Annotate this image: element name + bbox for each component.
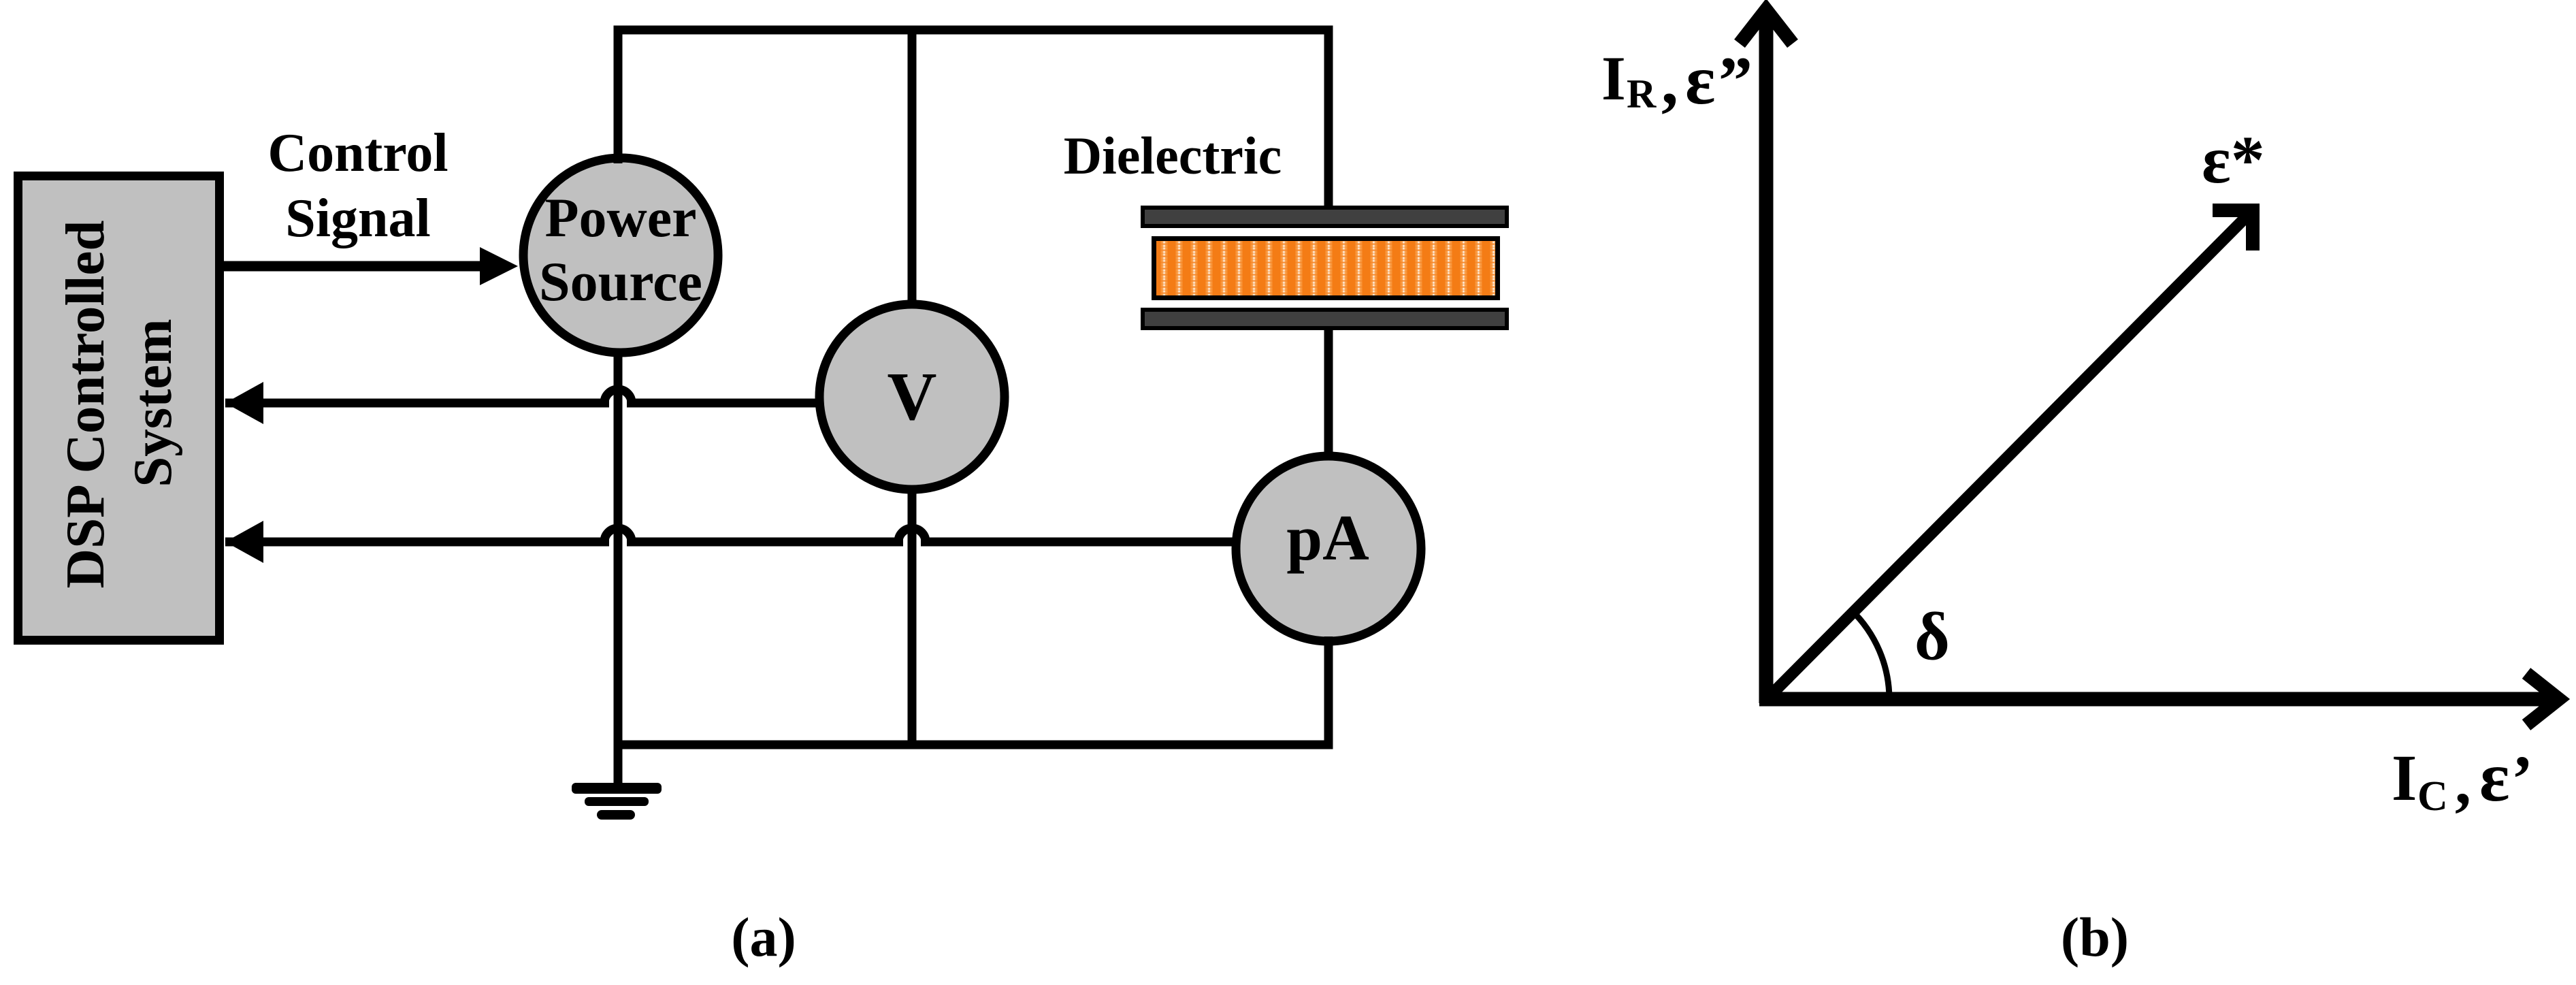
DSP Controlled System box <box>18 176 220 641</box>
ground <box>572 783 662 794</box>
svg-text:(b): (b) <box>2061 906 2129 968</box>
svg-text:δ: δ <box>1914 598 1950 674</box>
capacitor top plate <box>1143 208 1507 226</box>
svg-text:Signal: Signal <box>285 189 430 248</box>
dielectric slab <box>1154 239 1498 298</box>
svg-text:Dielectric: Dielectric <box>1064 126 1282 185</box>
wire: bottom rail <box>614 741 1333 749</box>
svg-text:’: ’ <box>2511 742 2533 815</box>
svg-text:ε*: ε* <box>2202 122 2265 197</box>
svg-text:V: V <box>887 358 937 434</box>
wire: top rail <box>614 26 1333 35</box>
delta angle arc <box>1851 610 1889 699</box>
hop over power vertical on wire 2 <box>604 528 632 542</box>
wire: V top vertical <box>908 30 917 306</box>
svg-text:DSP Controlled: DSP Controlled <box>54 221 116 589</box>
control signal arrowhead <box>480 247 518 285</box>
wire: power vertical below circle down to ground <box>614 349 623 784</box>
wire: capacitor bottom vertical <box>1324 329 1333 459</box>
svg-text:ε: ε <box>1685 41 1715 119</box>
svg-text:ε: ε <box>2479 738 2509 816</box>
svg-text:,: , <box>2455 745 2471 818</box>
svg-text:System: System <box>122 319 183 487</box>
vertical axis I_R <box>1759 15 1774 703</box>
wire: V vertical below circle <box>908 485 917 745</box>
wire: capacitor top vertical <box>1324 30 1333 211</box>
svg-text:Power: Power <box>544 187 696 248</box>
Power Source circle <box>523 158 718 353</box>
svg-text:Source: Source <box>539 251 702 312</box>
feedback arrowhead 1 <box>225 382 263 424</box>
control signal wire <box>224 261 483 272</box>
svg-text:C: C <box>2417 773 2448 820</box>
svg-text:I: I <box>2392 741 2417 814</box>
feedback wire 1 (V to DSP) <box>225 399 609 408</box>
svg-text:”: ” <box>1718 43 1752 118</box>
capacitor bottom plate <box>1143 310 1507 328</box>
feedback wire 2 (pA to DSP) <box>225 538 609 547</box>
wire: pA bottom vertical <box>1324 636 1333 745</box>
svg-text:I: I <box>1601 44 1626 113</box>
hop over V vertical on wire 2 <box>898 528 926 542</box>
horizontal axis I_C <box>1759 692 2554 707</box>
hop over power vertical on wire 1 <box>604 389 632 403</box>
svg-text:Control: Control <box>267 123 448 183</box>
feedback arrowhead 2 <box>225 521 263 563</box>
svg-text:(a): (a) <box>731 906 796 968</box>
pA meter circle <box>1236 456 1421 641</box>
wire: power source top vertical <box>614 30 623 163</box>
V meter circle <box>819 304 1005 489</box>
svg-text:pA: pA <box>1286 502 1369 574</box>
epsilon* vector <box>1765 215 2248 700</box>
svg-text:R: R <box>1627 71 1657 116</box>
svg-text:,: , <box>1661 43 1678 118</box>
